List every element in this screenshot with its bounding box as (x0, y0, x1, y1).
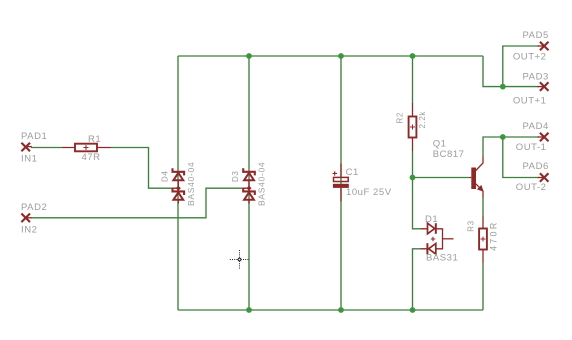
svg-text:BC817: BC817 (433, 149, 465, 160)
diode D1 (BAS31 dual) (421, 223, 454, 254)
wire R2 column top (412, 56, 414, 103)
svg-text:D1: D1 (425, 214, 438, 225)
pad PAD1 (21, 143, 32, 152)
diode D3 (BAS40-04 dual schottky) (243, 168, 255, 203)
wire PAD2 to D3 tap (31, 188, 243, 218)
svg-text:PAD5: PAD5 (523, 30, 549, 41)
pad PAD6 (538, 173, 549, 182)
junction dot top bus / R2 (410, 53, 416, 59)
svg-text:47R: 47R (82, 152, 101, 163)
svg-text:R1: R1 (88, 134, 101, 145)
wire R2 bottom to base junction (412, 151, 414, 178)
junction dot top bus / C1 (338, 53, 344, 59)
wire D1 bottom pin down to bottom bus (413, 249, 422, 310)
svg-text:R3: R3 (467, 220, 476, 231)
svg-text:R2: R2 (396, 112, 405, 123)
wire base junction to Q1 base (413, 177, 470, 179)
svg-text:C1: C1 (346, 167, 359, 178)
svg-text:OUT+1: OUT+1 (513, 95, 547, 106)
svg-text:BAS31: BAS31 (426, 253, 458, 264)
pad PAD4 (538, 133, 549, 142)
origin cross (sheet origin marker) (230, 250, 250, 269)
wire left bus vertical (177, 56, 179, 310)
junction dot OUT- node (500, 134, 506, 140)
wire R3 bottom to bottom bus (482, 263, 484, 310)
pad PAD5 (538, 42, 549, 51)
svg-text:OUT+2: OUT+2 (513, 52, 547, 63)
junction dot base node (410, 175, 416, 181)
wire R1 to D4 tap (111, 148, 172, 189)
svg-text:PAD6: PAD6 (523, 161, 549, 172)
resistor R2 (409, 103, 417, 151)
transistor Q1 BC817 (470, 157, 484, 199)
svg-text:D3: D3 (231, 171, 240, 182)
resistor R3 (479, 216, 487, 264)
wire OUT+ junction to PAD3 (503, 86, 539, 88)
wire base junction down to D1 top pin (413, 178, 422, 229)
junction dot OUT+ node (500, 84, 506, 90)
junction dot bottom bus / D3 (246, 307, 252, 313)
junction dot bottom bus / D1 (410, 307, 416, 313)
wire top bus right corner to OUT+ junction (483, 56, 503, 87)
capacitor C1 (polarized) (333, 164, 349, 202)
svg-text:10uF 25V: 10uF 25V (346, 187, 392, 198)
svg-text:IN1: IN1 (21, 154, 37, 165)
svg-text:PAD3: PAD3 (523, 72, 549, 83)
junction dot bottom bus / C1 (338, 307, 344, 313)
wire OUT- junction down to PAD6 (503, 137, 539, 178)
diode D4 (BAS40-04 dual schottky) (172, 168, 184, 203)
pad PAD3 (538, 82, 549, 91)
svg-text:2.2k: 2.2k (418, 111, 427, 129)
svg-text:BAS40-04: BAS40-04 (186, 162, 196, 206)
svg-text:IN2: IN2 (21, 225, 37, 236)
wire bottom bus (178, 309, 483, 311)
wire D3 column vertical (248, 56, 250, 310)
junction dot top bus / D3 (246, 53, 252, 59)
svg-text:OUT-2: OUT-2 (516, 182, 547, 193)
wire OUT- junction to PAD4 (503, 136, 539, 138)
svg-text:PAD4: PAD4 (523, 121, 549, 132)
wire PAD1 to R1 (31, 147, 62, 149)
svg-text:OUT-1: OUT-1 (516, 142, 547, 153)
pad PAD2 (21, 214, 32, 223)
wire Q1 emitter down to R3 (482, 198, 484, 216)
wire OUT+ junction up to PAD5 (503, 46, 539, 87)
wire top bus (178, 55, 483, 57)
svg-text:PAD2: PAD2 (21, 202, 47, 213)
svg-text:D4: D4 (160, 171, 169, 182)
wire C1 column vertical (340, 56, 342, 310)
svg-text:BAS40-04: BAS40-04 (257, 162, 267, 206)
svg-text:470R: 470R (489, 221, 499, 251)
resistor R1 (62, 144, 111, 152)
wire Q1 collector up to OUT- junction (483, 137, 503, 157)
svg-text:PAD1: PAD1 (21, 131, 47, 142)
